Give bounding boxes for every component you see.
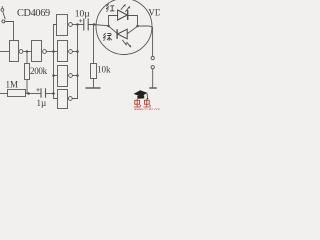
label hong (red) [106, 4, 114, 12]
inverter U1B box [32, 41, 42, 62]
inverter A output bubble [19, 50, 23, 54]
terminal upper circle [151, 56, 154, 59]
switch S terminal upper [1, 6, 4, 11]
lamp VL enclosure circle [96, 0, 152, 55]
wire bus-left vertical [54, 25, 58, 99]
resistor 1M [8, 90, 26, 97]
wire 10u to LED ladder [88, 25, 108, 26]
green LED triangle [118, 29, 128, 39]
wire bus to D input [54, 75, 58, 77]
inverter U1E box [58, 90, 68, 109]
LED ladder left rail [108, 15, 110, 26]
resistor 200k [25, 64, 30, 80]
inverter U1C box [58, 41, 68, 62]
red LED emission arrows [121, 5, 129, 12]
red LED branch wires [109, 15, 138, 17]
green LED emission arrows [122, 40, 130, 47]
resistor 200k lead top [26, 52, 28, 64]
resistor 200k lead bottom [26, 80, 28, 94]
inverter E output bubble [68, 97, 72, 101]
wire LED right rail to terminal [138, 26, 153, 56]
watermark graduation cap [134, 90, 149, 99]
resistor 10k lead bottom [93, 78, 95, 88]
inverter F output bubble [69, 23, 73, 27]
wire terminal to ground right [152, 69, 154, 88]
wire 1M right lead to node X [26, 93, 42, 95]
node bus 1u junction [52, 92, 55, 95]
node 10k tap junction [93, 23, 96, 26]
green LED cathode bar [116, 29, 118, 39]
switch S terminal lower [2, 20, 5, 23]
watermark chongchong characters [134, 99, 151, 107]
LED ladder right rail [137, 15, 139, 26]
green LED branch wires [109, 26, 138, 34]
svg-text:200k: 200k [30, 66, 48, 76]
resistor 10k [91, 64, 97, 79]
capacitor 10u plates [84, 19, 88, 31]
wire bus-right vertical [72, 25, 77, 99]
label lv (green) [103, 33, 112, 41]
inverter B output bubble [43, 50, 47, 54]
inverter U1D box [58, 66, 68, 87]
node bus B-out junction [52, 50, 55, 53]
capacitor 1u plates [41, 88, 46, 97]
wire B out to bus [46, 51, 57, 53]
node bus D-in junction [52, 74, 55, 77]
wire 1u to bus-left [46, 93, 54, 95]
capacitor 1u plus sign [36, 88, 39, 91]
wire stub left of A [0, 51, 10, 53]
svg-text:www.cc-dz.com: www.cc-dz.com [134, 107, 160, 111]
node bus-right D junction [76, 74, 79, 77]
inverter D output bubble [69, 74, 73, 78]
ground bar right [149, 87, 157, 89]
node left rail junction [107, 25, 110, 28]
resistor 10k lead top [93, 25, 95, 64]
wire 1M left lead [0, 93, 8, 95]
node right rail junction [136, 25, 139, 28]
wire A out to B in [23, 51, 32, 53]
wire F out to cap node [72, 24, 83, 26]
wire C out to bus-right [72, 51, 77, 53]
inverter U1A box [10, 41, 19, 62]
svg-text:10k: 10k [97, 65, 111, 75]
node bus-right C junction [76, 50, 79, 53]
switch lever [3, 12, 5, 19]
node bus-right top junction [76, 23, 79, 26]
svg-text:VD: VD [148, 8, 160, 18]
wire switch to inverter A input [5, 22, 14, 41]
terminal lower circle [151, 66, 154, 69]
svg-text:1M: 1M [6, 80, 19, 90]
node X junction [27, 92, 30, 95]
svg-text:CD4069: CD4069 [17, 8, 50, 19]
inverter C output bubble [69, 50, 73, 54]
svg-text:10µ: 10µ [75, 10, 91, 20]
ground bar left [86, 87, 101, 89]
red LED triangle [118, 10, 128, 20]
node A-B junction [26, 50, 29, 53]
wire D out to bus-right [72, 75, 77, 77]
red LED cathode bar [127, 10, 129, 20]
capacitor 10u plus sign [79, 19, 82, 22]
inverter U1F box (top driver) [57, 15, 68, 36]
svg-text:1µ: 1µ [37, 98, 47, 108]
